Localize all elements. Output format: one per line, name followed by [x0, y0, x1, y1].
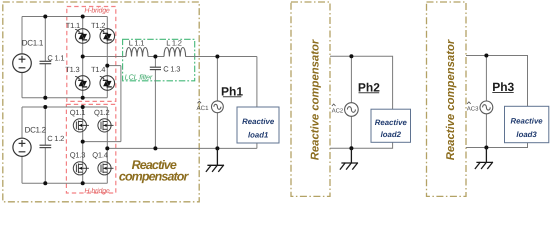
ac source AC1	[212, 101, 224, 113]
node: B1 output of T-bridge	[105, 64, 109, 68]
wire: L1.1-L1.2 link	[148, 56, 164, 58]
svg-text:Reactive compensator: Reactive compensator	[445, 39, 457, 160]
label Ph3	[492, 80, 514, 94]
wire: load1 bottom drop	[256, 143, 258, 148]
wire: AC2 branch top	[350, 56, 352, 102]
igbt switch T1.1	[75, 29, 90, 44]
label Ph2	[358, 80, 380, 94]
reactive load 1 box	[237, 107, 279, 143]
wire: T-bridge left leg	[82, 17, 84, 98]
svg-text:Q1.3: Q1.3	[70, 150, 85, 159]
reactive load 2 box	[371, 109, 411, 142]
node: phase 2 ground junction	[349, 146, 353, 150]
wire: bottom rail of bottom converter	[22, 182, 107, 184]
dc source DC1.2	[13, 138, 31, 156]
label AC2	[332, 104, 344, 114]
wire: Q-bridge left leg	[82, 107, 84, 183]
LCL filter box	[123, 39, 195, 81]
ground phase 1	[206, 148, 224, 172]
svg-text:T1.2: T1.2	[91, 21, 105, 30]
inductor L1.2	[164, 48, 186, 57]
capacitor C1.2	[40, 145, 52, 147]
wire: phase 3 return	[466, 143, 528, 148]
svg-text:T1.3: T1.3	[65, 65, 79, 74]
svg-text:C 1.3: C 1.3	[163, 65, 180, 74]
svg-text:AC2: AC2	[332, 107, 344, 114]
reactive load 3 box	[505, 106, 549, 142]
wire: AC2 branch bottom	[350, 116, 352, 148]
wire: DC1.2 negative lead	[21, 156, 23, 183]
svg-text:load1: load1	[248, 131, 268, 140]
capacitor C1.1	[40, 61, 52, 63]
wire: T-bridge right leg	[106, 17, 108, 98]
H-bridge box (bottom, Q devices)	[66, 104, 115, 193]
wire: AC3 branch bottom	[485, 114, 487, 148]
node: T1.1 top junction	[81, 15, 85, 19]
dc source DC1.1	[13, 54, 32, 73]
node: LCL middle junction	[153, 55, 157, 59]
label AC1	[197, 101, 210, 112]
wire: DC1.1 positive lead	[21, 17, 23, 55]
svg-text:LCL filter: LCL filter	[125, 72, 153, 81]
svg-text:Q1.2: Q1.2	[94, 108, 109, 117]
node: Q1.3 bottom junction	[81, 181, 85, 185]
wire: C1.1 branch bottom	[44, 64, 46, 98]
mosfet Q1.2	[98, 119, 114, 132]
svg-text:C 1.2: C 1.2	[47, 134, 64, 143]
node: Q1.1 top junction	[81, 105, 85, 109]
mosfet Q1.1	[73, 119, 89, 132]
svg-text:Q1.1: Q1.1	[70, 108, 85, 117]
ac source AC3	[480, 101, 493, 114]
node: phase 2 AC tap	[349, 54, 353, 58]
node: A2 output of Q-bridge	[81, 140, 85, 144]
node: C1.2 bottom junction	[43, 181, 47, 185]
svg-text:H-bridge: H-bridge	[84, 187, 110, 195]
svg-text:C 1.1: C 1.1	[47, 53, 64, 62]
svg-text:AC3: AC3	[467, 105, 479, 112]
ground phase 3	[475, 148, 493, 170]
wire: phase 1 return	[107, 147, 257, 149]
wire: AC1 branch bottom	[216, 113, 218, 149]
wire: series link vertical B1 to A2	[120, 66, 122, 142]
wire: C1.2 branch top	[44, 107, 46, 145]
svg-text:Reactive: Reactive	[375, 118, 408, 127]
label AC3	[467, 102, 479, 112]
wire: node A1 to LCL input	[83, 56, 126, 58]
wire: phase 3 feed	[466, 56, 528, 107]
igbt switch T1.4	[100, 76, 115, 91]
node: phase 1 ground junction	[215, 146, 219, 150]
svg-text:T1.1: T1.1	[66, 21, 80, 30]
wire: bottom rail of top converter	[22, 97, 107, 99]
svg-text:Reactive: Reactive	[511, 117, 544, 126]
wire: C1.2 branch bottom	[44, 148, 46, 184]
node: A1 output of T-bridge	[81, 55, 85, 59]
wire: load1 top drop	[256, 57, 258, 108]
mosfet Q1.4	[98, 162, 114, 175]
node: phase 1 AC tap	[215, 55, 219, 59]
node: phase 3 ground junction	[484, 146, 488, 150]
wire: C1.3 top lead	[154, 57, 156, 68]
wire: top DC rail 1	[22, 16, 107, 18]
node: C1.3 return junction	[153, 146, 157, 150]
node: B2 output of Q-bridge	[105, 146, 109, 150]
wire: node B1 horizontal stub	[107, 65, 121, 67]
svg-text:Reactive: Reactive	[242, 117, 275, 126]
svg-text:AC1: AC1	[197, 105, 210, 112]
wire: AC3 branch top	[485, 56, 487, 102]
compensator 1 title	[119, 158, 190, 184]
node: T1.3 bottom junction	[81, 96, 85, 100]
ground phase 2	[340, 148, 358, 169]
wire: Q-bridge right leg	[106, 107, 108, 183]
wire: top DC rail 2	[22, 106, 107, 108]
svg-text:DC1.1: DC1.1	[22, 38, 44, 47]
igbt switch T1.3	[75, 76, 90, 91]
enclosure compensator 1 box	[3, 2, 199, 202]
wire: series link horizontal to Q left node	[83, 141, 121, 143]
wire: C1.1 branch top	[44, 17, 46, 62]
svg-text:T1.4: T1.4	[91, 65, 105, 74]
node: phase 3 AC tap	[484, 54, 488, 58]
node: C1.2 top junction	[43, 105, 47, 109]
wire: DC1.2 positive lead	[21, 107, 23, 138]
svg-text:compensator: compensator	[119, 170, 190, 184]
wire: AC1 branch top	[216, 57, 218, 102]
igbt switch T1.2	[100, 29, 115, 44]
svg-text:L 1.1: L 1.1	[129, 38, 144, 47]
svg-text:L 1.2: L 1.2	[166, 38, 181, 47]
svg-text:Q1.4: Q1.4	[92, 150, 107, 159]
capacitor C1.3	[150, 67, 161, 69]
svg-text:load2: load2	[381, 130, 402, 139]
wire: DC1.1 negative lead	[21, 73, 23, 98]
node: C1.1 bottom junction	[43, 96, 47, 100]
enclosure compensator 3 box	[427, 2, 467, 196]
wire: phase 2 feed	[330, 56, 393, 109]
ac source AC2	[345, 103, 359, 117]
label Ph1	[221, 85, 243, 99]
inductor L1.1	[126, 48, 148, 57]
mosfet Q1.3	[73, 162, 89, 175]
svg-text:DC1.2: DC1.2	[25, 126, 47, 135]
H-bridge box (top, T devices)	[67, 7, 116, 102]
wire: phase 2 return	[330, 142, 393, 148]
wire: C1.3 bottom lead	[154, 70, 156, 149]
enclosure compensator 2 box	[291, 2, 330, 196]
node: C1.1 top junction	[43, 15, 47, 19]
svg-text:H-bridge: H-bridge	[84, 7, 110, 15]
svg-text:load3: load3	[516, 130, 537, 139]
svg-text:Reactive compensator: Reactive compensator	[309, 39, 321, 160]
wire: LCL output to load corner	[186, 56, 257, 58]
